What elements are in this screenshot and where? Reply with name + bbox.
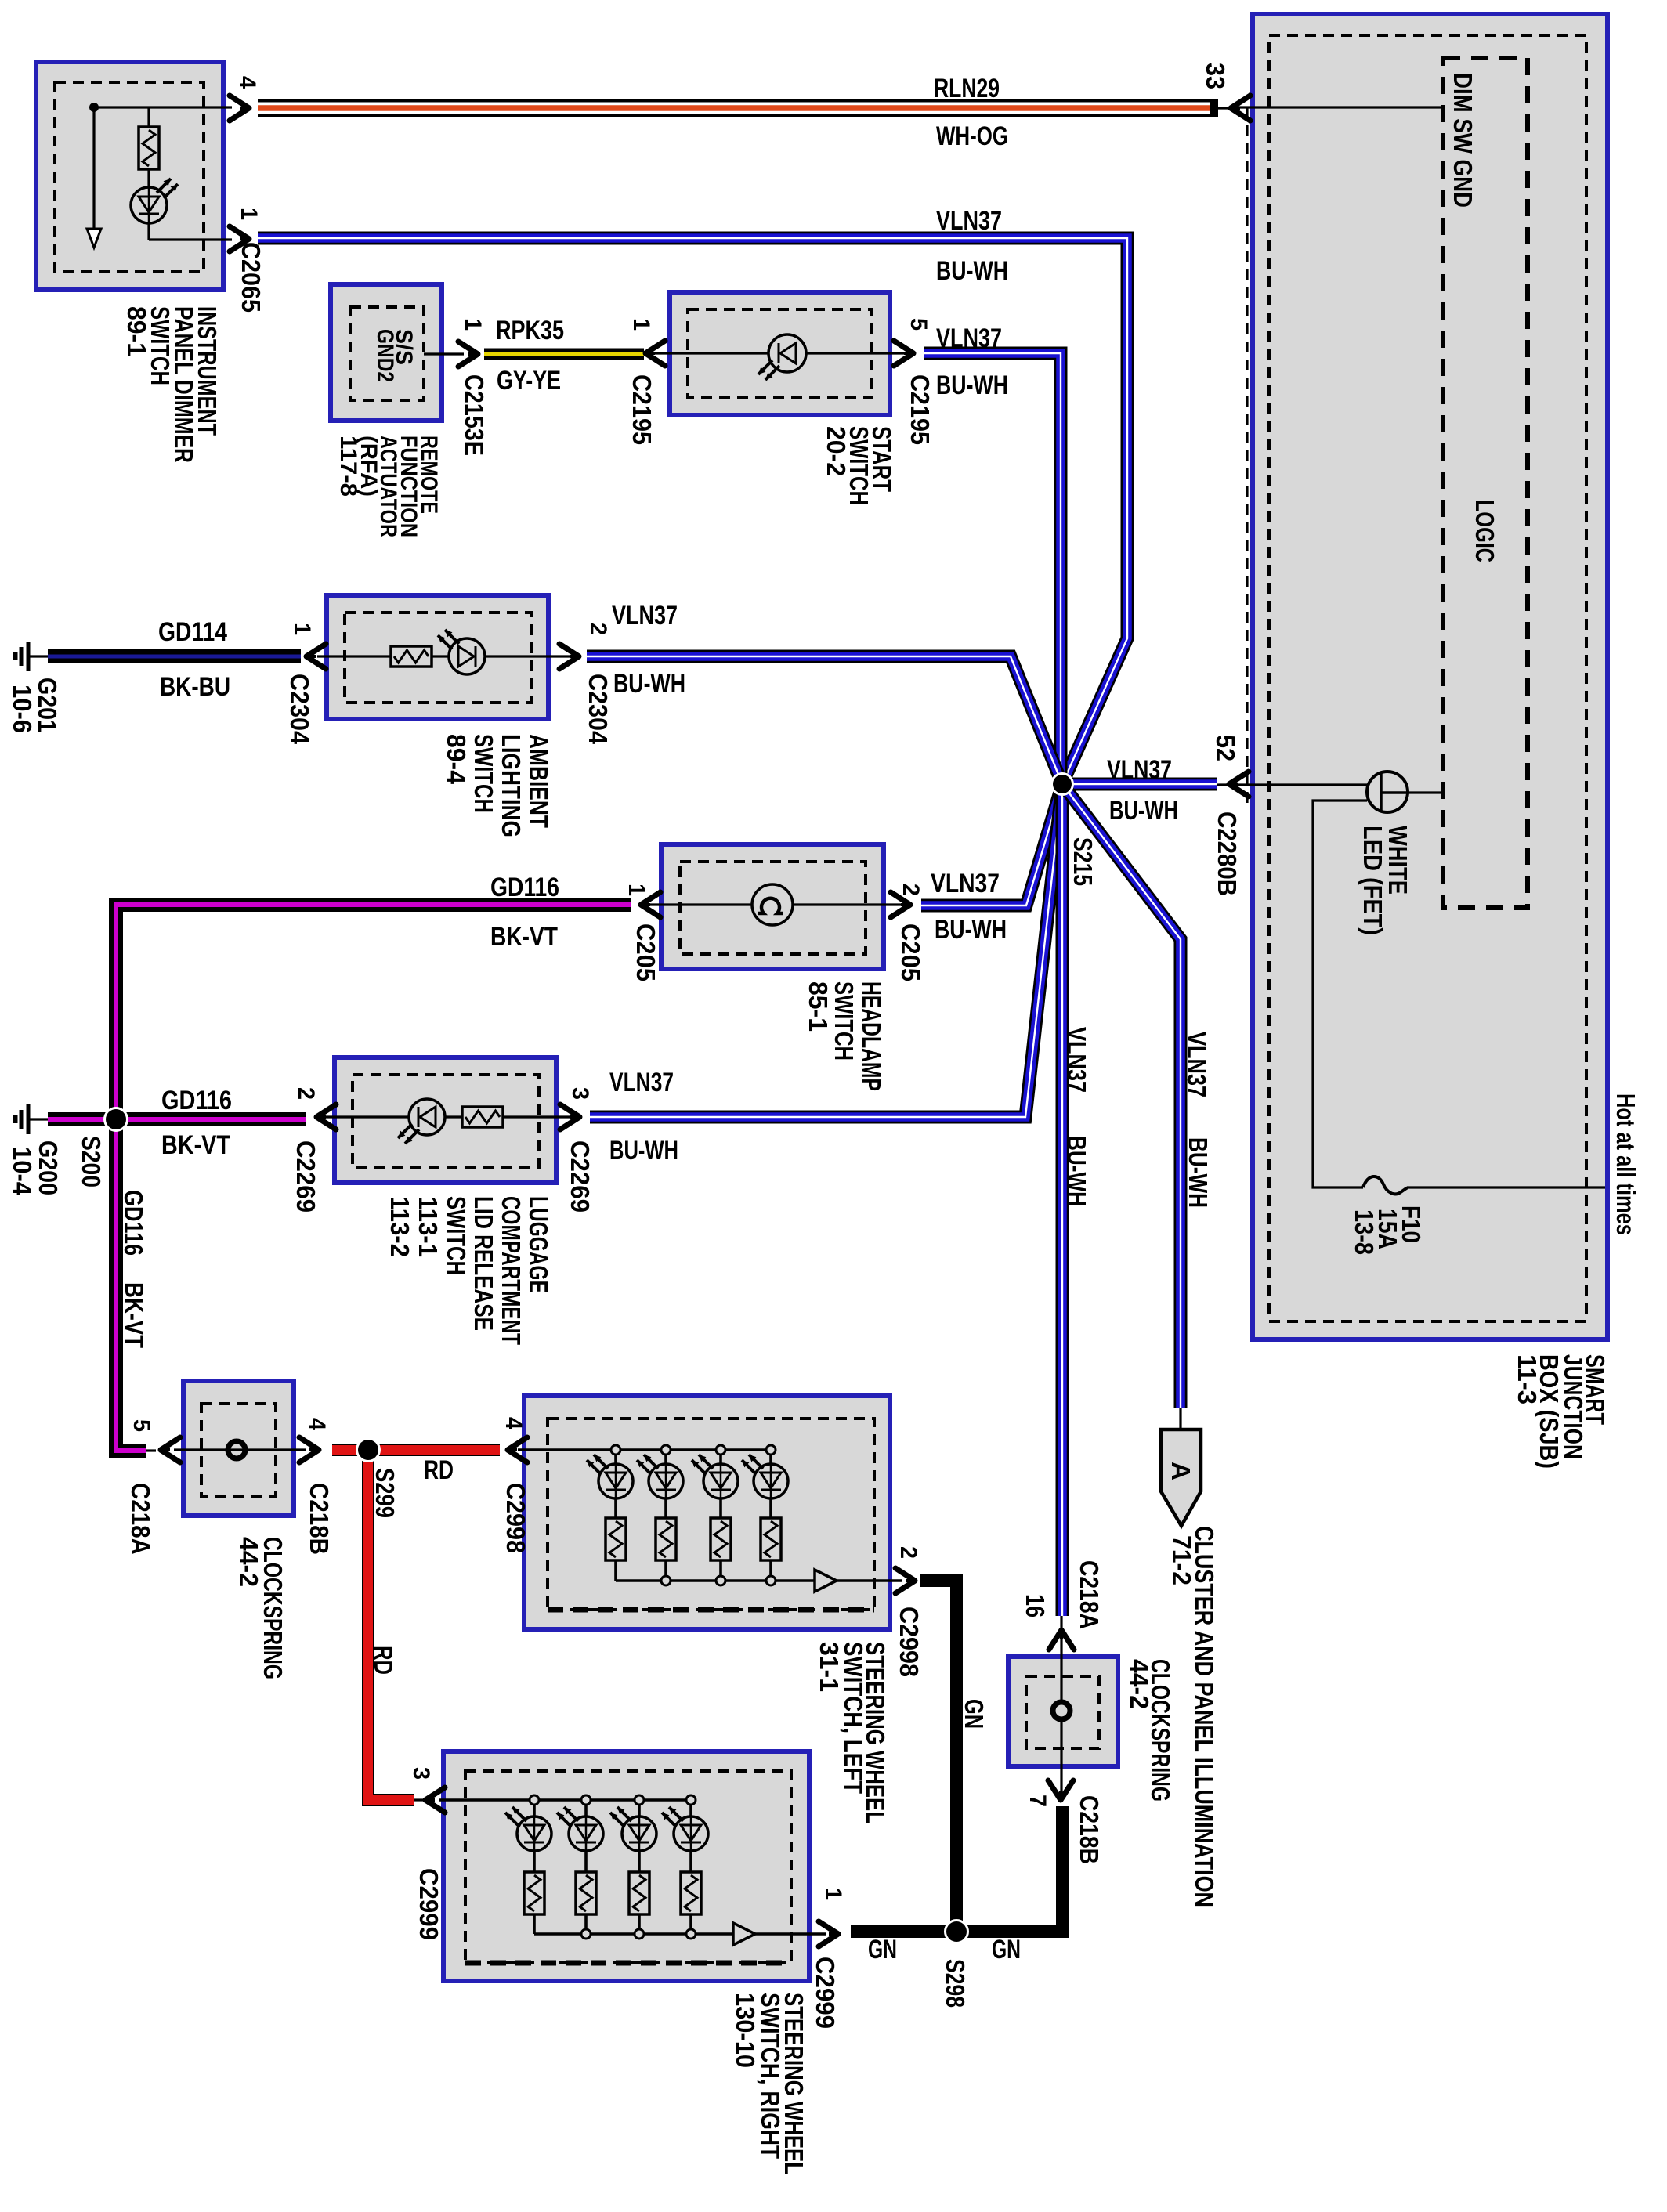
- svg-text:113-1: 113-1: [414, 1196, 443, 1257]
- svg-text:GND2: GND2: [372, 329, 398, 382]
- svg-text:4: 4: [501, 1417, 526, 1429]
- svg-text:RPK35: RPK35: [496, 316, 564, 345]
- svg-text:VLN37: VLN37: [609, 1068, 674, 1097]
- svg-text:SWITCH: SWITCH: [830, 981, 859, 1061]
- svg-text:Hot at all times: Hot at all times: [1611, 1093, 1640, 1235]
- svg-text:C2065: C2065: [237, 242, 266, 313]
- svg-text:C2153E: C2153E: [460, 374, 489, 456]
- svg-text:RLN29: RLN29: [934, 74, 1000, 103]
- svg-text:4: 4: [234, 76, 260, 89]
- svg-text:C2269: C2269: [291, 1140, 320, 1213]
- svg-text:SWITCH: SWITCH: [442, 1196, 471, 1275]
- svg-text:1: 1: [460, 318, 486, 331]
- svg-text:2: 2: [585, 623, 611, 635]
- svg-text:LIGHTING: LIGHTING: [497, 734, 526, 837]
- svg-text:LUGGAGE: LUGGAGE: [524, 1196, 553, 1293]
- svg-text:GN: GN: [868, 1935, 897, 1964]
- svg-text:1: 1: [236, 208, 262, 220]
- svg-text:BU-WH: BU-WH: [1184, 1137, 1213, 1208]
- svg-text:LED (FET): LED (FET): [1358, 826, 1387, 935]
- svg-text:S200: S200: [77, 1136, 106, 1187]
- svg-text:1: 1: [624, 884, 649, 896]
- svg-text:1: 1: [820, 1888, 846, 1900]
- svg-text:3: 3: [567, 1087, 593, 1100]
- svg-text:71-2: 71-2: [1167, 1535, 1196, 1585]
- svg-text:BU-WH: BU-WH: [1109, 796, 1178, 826]
- svg-text:2: 2: [293, 1087, 319, 1100]
- svg-text:COMPARTMENT: COMPARTMENT: [497, 1196, 526, 1345]
- svg-text:GD116: GD116: [490, 873, 559, 902]
- svg-text:S299: S299: [371, 1468, 400, 1518]
- svg-text:C2269: C2269: [566, 1140, 595, 1213]
- svg-text:31-1: 31-1: [815, 1642, 844, 1692]
- svg-text:VLN37: VLN37: [936, 206, 1002, 236]
- svg-text:BK-VT: BK-VT: [161, 1130, 230, 1160]
- svg-text:AMBIENT: AMBIENT: [524, 734, 553, 828]
- svg-text:S298: S298: [941, 1959, 970, 2008]
- svg-text:C2998: C2998: [501, 1483, 530, 1553]
- svg-text:117-8: 117-8: [335, 436, 361, 497]
- svg-text:10-4: 10-4: [8, 1147, 37, 1196]
- svg-text:A: A: [1166, 1462, 1195, 1480]
- svg-text:BU-WH: BU-WH: [936, 370, 1008, 400]
- svg-text:BU-WH: BU-WH: [609, 1136, 678, 1166]
- svg-text:LID RELEASE: LID RELEASE: [469, 1196, 498, 1331]
- svg-text:GY-YE: GY-YE: [497, 366, 561, 396]
- svg-text:VLN37: VLN37: [936, 323, 1002, 353]
- svg-text:C2999: C2999: [414, 1868, 443, 1940]
- svg-text:2: 2: [895, 1546, 921, 1559]
- svg-text:GD114: GD114: [158, 617, 227, 647]
- svg-text:4: 4: [304, 1418, 330, 1430]
- svg-text:113-2: 113-2: [385, 1196, 414, 1257]
- svg-text:11-3: 11-3: [1513, 1354, 1542, 1404]
- svg-text:13-8: 13-8: [1350, 1209, 1379, 1255]
- svg-text:BU-WH: BU-WH: [936, 256, 1008, 286]
- svg-text:33: 33: [1201, 63, 1230, 89]
- svg-text:7: 7: [1025, 1795, 1050, 1807]
- svg-text:16: 16: [1021, 1594, 1050, 1617]
- svg-text:BK-VT: BK-VT: [490, 922, 558, 952]
- svg-text:3: 3: [408, 1767, 434, 1780]
- svg-text:5: 5: [906, 318, 931, 331]
- svg-text:RD: RD: [424, 1455, 454, 1485]
- svg-text:BU-WH: BU-WH: [935, 915, 1007, 945]
- svg-text:C205: C205: [631, 923, 660, 981]
- svg-text:S215: S215: [1069, 837, 1097, 886]
- svg-text:10-6: 10-6: [8, 685, 37, 733]
- svg-text:C2195: C2195: [906, 374, 935, 445]
- svg-text:C2280B: C2280B: [1213, 811, 1242, 896]
- svg-text:2: 2: [898, 884, 924, 896]
- svg-text:LOGIC: LOGIC: [1470, 500, 1499, 562]
- svg-text:C218A: C218A: [126, 1483, 155, 1555]
- svg-text:DIM SW GND: DIM SW GND: [1448, 73, 1477, 208]
- svg-text:C205: C205: [896, 923, 925, 981]
- svg-text:130-10: 130-10: [731, 1993, 760, 2068]
- svg-text:GD116: GD116: [161, 1086, 232, 1115]
- svg-text:1: 1: [628, 318, 654, 331]
- svg-text:GN: GN: [992, 1935, 1021, 1964]
- svg-text:WH-OG: WH-OG: [936, 121, 1008, 151]
- svg-text:BK-VT: BK-VT: [120, 1282, 149, 1348]
- svg-text:HEADLAMP: HEADLAMP: [857, 981, 886, 1091]
- svg-text:BU-WH: BU-WH: [1062, 1136, 1091, 1206]
- svg-text:C2999: C2999: [811, 1957, 840, 2029]
- svg-text:5: 5: [128, 1419, 154, 1432]
- svg-text:BU-WH: BU-WH: [613, 669, 685, 699]
- svg-text:1: 1: [289, 623, 315, 635]
- svg-text:G200: G200: [34, 1140, 63, 1195]
- svg-text:VLN37: VLN37: [1062, 1027, 1091, 1093]
- svg-text:VLN37: VLN37: [1107, 755, 1172, 785]
- svg-text:SWITCH: SWITCH: [469, 734, 498, 813]
- svg-text:44-2: 44-2: [1125, 1659, 1154, 1709]
- svg-text:89-4: 89-4: [442, 734, 471, 785]
- svg-text:C218A: C218A: [1075, 1560, 1104, 1629]
- svg-text:44-2: 44-2: [234, 1537, 263, 1587]
- svg-text:C218B: C218B: [305, 1483, 334, 1555]
- svg-text:C218B: C218B: [1075, 1795, 1104, 1864]
- svg-text:C2998: C2998: [895, 1607, 924, 1677]
- svg-text:VLN37: VLN37: [612, 601, 678, 631]
- svg-text:GD116: GD116: [119, 1190, 148, 1256]
- svg-text:20-2: 20-2: [822, 426, 851, 476]
- svg-text:VLN37: VLN37: [931, 869, 1000, 898]
- svg-text:RD: RD: [369, 1646, 398, 1675]
- svg-text:VLN37: VLN37: [1182, 1032, 1211, 1097]
- svg-text:GN: GN: [960, 1699, 989, 1729]
- svg-text:52: 52: [1211, 735, 1240, 761]
- svg-text:C2304: C2304: [285, 674, 314, 745]
- svg-text:C2304: C2304: [584, 674, 613, 745]
- svg-text:C2195: C2195: [627, 374, 656, 445]
- svg-text:85-1: 85-1: [804, 981, 833, 1032]
- svg-text:89-1: 89-1: [122, 306, 151, 356]
- svg-text:BK-BU: BK-BU: [160, 672, 230, 702]
